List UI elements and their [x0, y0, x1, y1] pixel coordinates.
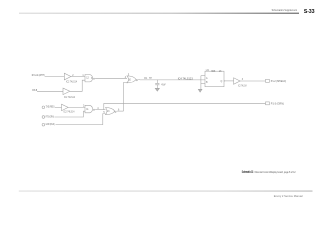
- svg-text:Schematic 33: Schematic 33: [242, 170, 254, 174]
- ground below C1: [155, 88, 159, 91]
- gate U3B NOR: [106, 108, 117, 115]
- wire T1 to buffer: [55, 106, 62, 108]
- pin dot U4 output: [224, 80, 225, 81]
- long wire to connector P1-3: [104, 102, 266, 104]
- svg-text:IC2 74LS14: IC2 74LS14: [66, 81, 78, 83]
- svg-text:P1-2 (SHIELD): P1-2 (SHIELD): [271, 80, 286, 83]
- terminal T3 circle: [42, 123, 45, 126]
- buffer U1D: [62, 104, 69, 111]
- IC box U4 timer: [205, 71, 224, 87]
- svg-text:Monorail Comm/Display board, p: Monorail Comm/Display board, page 8 of 1…: [255, 170, 296, 174]
- gate U2B NOR: [127, 76, 137, 83]
- wire row1b input: [37, 90, 63, 92]
- svg-text:IC2 74LS14: IC2 74LS14: [238, 85, 247, 87]
- gate U3A NAND: [85, 105, 95, 113]
- gate U2A NAND: [85, 75, 95, 82]
- buffer U1A (74LS14): [64, 73, 71, 80]
- terminal T1 circle: [42, 106, 45, 109]
- svg-text:47pF: 47pF: [161, 84, 166, 86]
- wire U4 output: [224, 80, 234, 82]
- svg-text:P1-3 (GRN): P1-3 (GRN): [271, 102, 284, 105]
- svg-text:IC2 74LS14: IC2 74LS14: [63, 111, 75, 113]
- svg-text:IC2 74LS14: IC2 74LS14: [64, 97, 76, 99]
- wire buffer to connector P1: [240, 80, 265, 82]
- wire gateA to gateB: [95, 109, 105, 111]
- header rule: [19, 13, 299, 14]
- buffer U1C: [63, 88, 70, 95]
- svg-text:RTS (GRN): RTS (GRN): [46, 115, 54, 118]
- terminal T2 circle: [42, 116, 45, 119]
- connector pin P1-2 square: [266, 79, 270, 82]
- svg-text:S-33: S-33: [304, 9, 315, 15]
- svg-text:IC4 74LS123: IC4 74LS123: [178, 79, 194, 81]
- wire row1 input: [45, 76, 65, 78]
- footer rule: [19, 190, 313, 193]
- wire bufferD to gateA: [68, 106, 85, 108]
- wire buffer1c to riser: [70, 80, 85, 91]
- capacitor C1: [155, 83, 159, 88]
- wire gate3 output run: [138, 79, 205, 81]
- svg-text:RX-A2 (WHT): RX-A2 (WHT): [32, 74, 45, 77]
- pin stub upper left of U4: [201, 75, 205, 77]
- svg-text:TXD (RED): TXD (RED): [46, 106, 55, 109]
- ground below U4: [198, 89, 202, 92]
- connector pin P1-3 square: [266, 102, 270, 105]
- wire gateB output to riser: [117, 110, 124, 112]
- wire gate2 to gate3: [95, 77, 127, 79]
- vertical to ground from U4 pins: [199, 76, 202, 90]
- svg-text:TP: TP: [149, 78, 152, 80]
- node junction cap tap: [156, 80, 158, 84]
- svg-text:Envoy 2 Service Manual: Envoy 2 Service Manual: [274, 195, 303, 198]
- wire T3 to gateB lower input: [56, 114, 106, 125]
- pin stub lower left of U4: [201, 83, 205, 85]
- buffer U1B output stage: [234, 78, 241, 85]
- svg-text:GND (BLK): GND (BLK): [46, 123, 55, 126]
- wire buffer1 to gate2: [71, 76, 85, 78]
- riser joining row1 gate3 lower input: [124, 82, 128, 111]
- wire T2 to gateA lower input: [55, 111, 86, 117]
- schematic small text labels: [32, 74, 286, 126]
- node riser to long wire: [103, 103, 105, 109]
- schematic drawing: [37, 71, 269, 126]
- svg-text:Schematics Supplement: Schematics Supplement: [272, 9, 298, 12]
- svg-text:RX-B: RX-B: [32, 89, 37, 92]
- pin stub above gate U2B: [128, 73, 130, 76]
- svg-text:Q: Q: [221, 81, 223, 83]
